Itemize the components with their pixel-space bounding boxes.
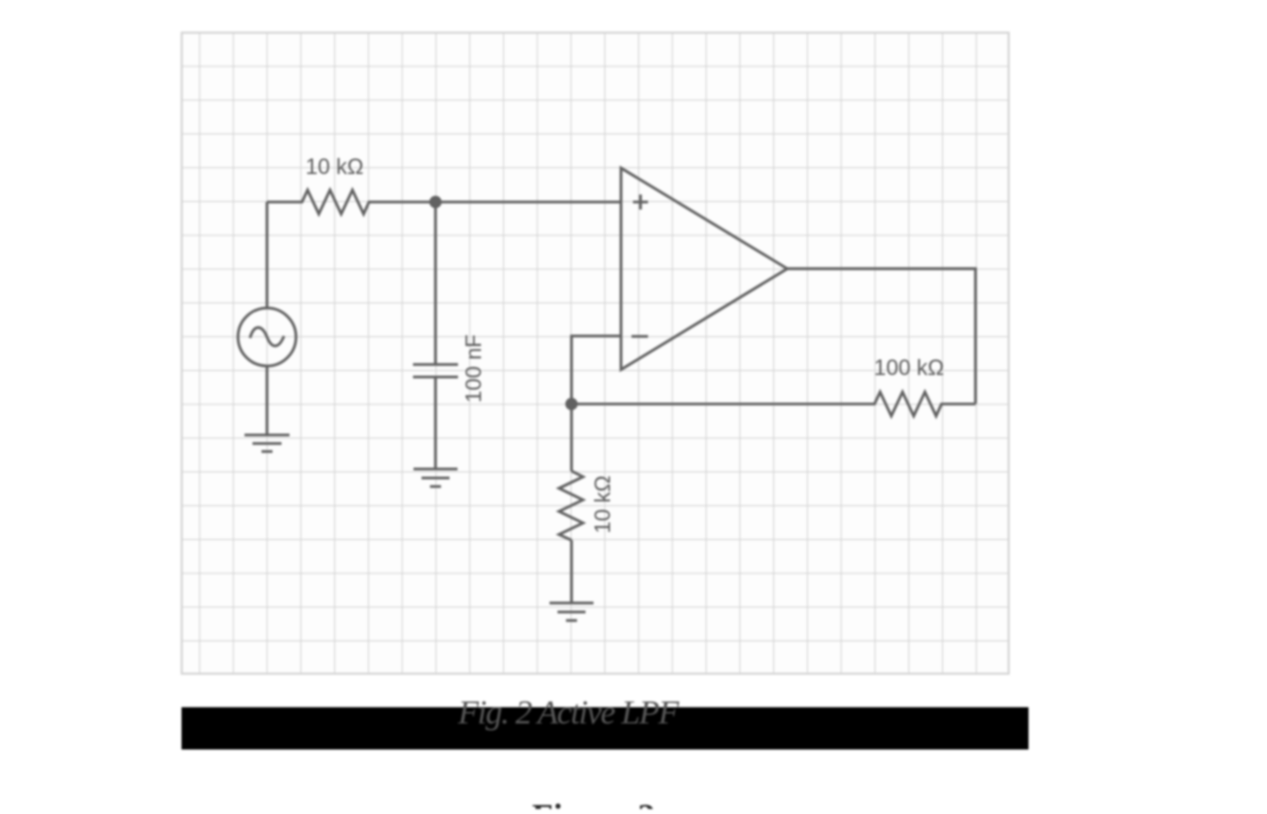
svg-text:100 nF: 100 nF [461, 334, 486, 403]
svg-text:Fig. 2 Active LPF: Fig. 2 Active LPF [457, 695, 680, 732]
svg-text:100 kΩ: 100 kΩ [874, 355, 944, 380]
svg-text:Figure 2: Figure 2 [532, 798, 655, 809]
svg-text:10 kΩ: 10 kΩ [305, 154, 363, 179]
svg-text:10 kΩ: 10 kΩ [590, 475, 615, 533]
